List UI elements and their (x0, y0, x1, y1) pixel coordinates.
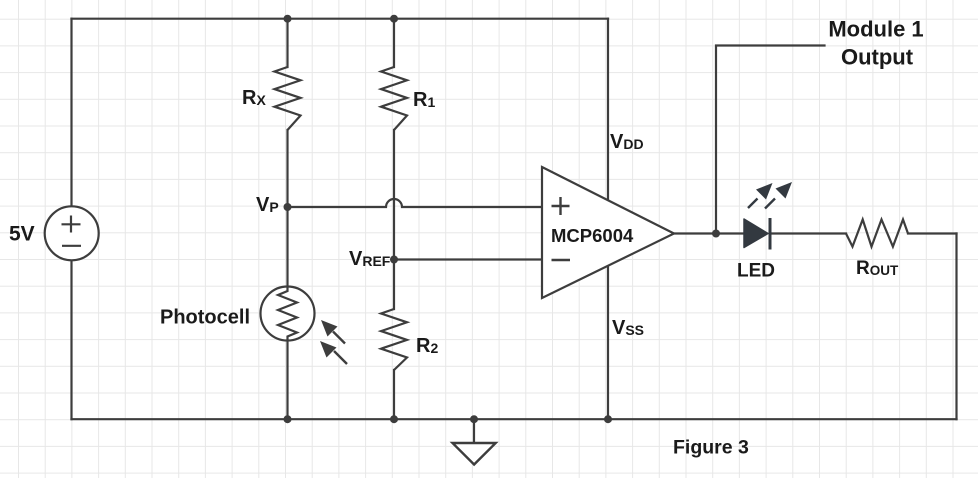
resistor R1 (381, 67, 407, 130)
svg-text:Photocell: Photocell (160, 307, 250, 329)
voltage source 5V (45, 206, 99, 260)
photocell arrow 1 (321, 320, 345, 344)
svg-text:Figure 3: Figure 3 (673, 437, 749, 459)
svg-text:Module 1: Module 1 (828, 17, 923, 42)
wire left rail upper (70, 19, 72, 207)
LED arrow 1 (748, 199, 758, 209)
wire top rail (72, 18, 609, 20)
node bottom Vss (604, 415, 612, 423)
op-amp U1 MCP6004 (542, 167, 674, 298)
node top Rx (284, 15, 292, 23)
svg-text:Output: Output (841, 45, 914, 70)
LED arrow 2 (765, 199, 775, 209)
wire Vp to op-amp with hop over R1 (288, 199, 543, 207)
wire VDD/VSS vertical (607, 19, 609, 420)
wire Rout to right rail (908, 232, 957, 234)
wire R1 to Vref (393, 130, 395, 309)
wire LED to Rout (771, 232, 846, 234)
ground (453, 443, 496, 465)
wire R2 to bottom rail (393, 370, 395, 419)
wire right rail (955, 234, 957, 420)
node Vp (284, 203, 292, 211)
wire op-amp output (674, 232, 744, 234)
node bottom ground (470, 415, 478, 423)
node bottom photocell (284, 415, 292, 423)
wire ground stub (473, 419, 475, 443)
svg-text:LED: LED (737, 261, 775, 282)
wire R1 branch upper (393, 19, 395, 67)
node top R1 (390, 15, 398, 23)
svg-text:MCP6004: MCP6004 (551, 225, 634, 246)
resistor RX (275, 67, 301, 130)
svg-text:5V: 5V (9, 223, 35, 246)
wire Rx branch upper (286, 19, 288, 67)
wire left rail lower (70, 260, 72, 419)
photocell (261, 287, 348, 365)
node bottom R2 (390, 415, 398, 423)
photocell arrow 2 (320, 341, 347, 364)
wire Rx branch to photocell (286, 130, 288, 287)
wire bottom rail (72, 418, 957, 420)
resistor R2 (381, 309, 407, 370)
wire Vref to op-amp (394, 258, 542, 260)
resistor ROUT (846, 220, 908, 247)
LED D1 (744, 182, 792, 250)
node output junction (712, 230, 720, 238)
node Vref (390, 256, 398, 264)
wire module output branch (716, 46, 825, 234)
wire photocell to bottom rail (286, 341, 288, 420)
